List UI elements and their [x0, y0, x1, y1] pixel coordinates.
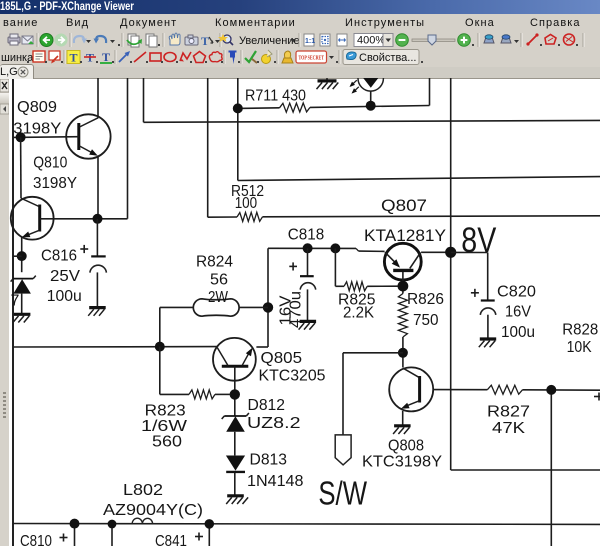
svg-text:1:1: 1:1 — [305, 38, 315, 45]
svg-text:R824: R824 — [196, 254, 233, 271]
svg-text:1N4148: 1N4148 — [247, 473, 304, 490]
svg-text:S/W: S/W — [318, 475, 367, 512]
svg-text:100: 100 — [235, 195, 258, 212]
svg-text:T: T — [102, 50, 110, 64]
svg-text:D813: D813 — [250, 452, 288, 469]
svg-text:400%: 400% — [357, 35, 385, 47]
svg-text:C841: C841 — [155, 533, 187, 546]
svg-text:KTC3205: KTC3205 — [259, 368, 326, 385]
svg-text:470u: 470u — [288, 291, 305, 328]
svg-text:Q810: Q810 — [33, 155, 67, 172]
svg-text:Свойства...: Свойства... — [359, 52, 416, 64]
svg-text:2W: 2W — [208, 289, 229, 306]
svg-text:Q805: Q805 — [261, 350, 303, 367]
svg-text:Q809: Q809 — [17, 99, 57, 116]
svg-text:T: T — [70, 51, 78, 65]
svg-text:R826: R826 — [407, 291, 444, 308]
svg-text:C816: C816 — [41, 248, 77, 265]
svg-text:56: 56 — [210, 272, 228, 289]
svg-text:Увеличение: Увеличение — [239, 35, 300, 47]
svg-text:3198Y: 3198Y — [13, 121, 61, 138]
svg-text:25V: 25V — [50, 268, 80, 285]
svg-text:8V: 8V — [461, 221, 497, 260]
svg-text:3198Y: 3198Y — [33, 175, 77, 192]
svg-text:100u: 100u — [501, 324, 535, 341]
svg-text:C810: C810 — [20, 533, 52, 546]
svg-text:шинка: шинка — [1, 52, 34, 64]
svg-text:47K: 47K — [492, 420, 525, 437]
svg-text:10K: 10K — [567, 339, 592, 356]
svg-text:750: 750 — [413, 312, 439, 329]
svg-text:R711 430: R711 430 — [245, 88, 306, 105]
svg-text:KTC3198Y: KTC3198Y — [362, 454, 442, 471]
svg-text:16V: 16V — [505, 304, 531, 321]
svg-text:AZ9004Y(C): AZ9004Y(C) — [103, 502, 203, 519]
svg-text:TOP SECRET: TOP SECRET — [299, 55, 325, 62]
svg-text:560: 560 — [152, 434, 182, 451]
svg-text:T: T — [201, 34, 209, 48]
svg-text:R827: R827 — [487, 404, 530, 421]
svg-text:Q807: Q807 — [381, 196, 427, 215]
svg-text:100u: 100u — [47, 288, 82, 305]
svg-text:1/6W: 1/6W — [141, 418, 188, 435]
svg-text:C820: C820 — [497, 284, 536, 301]
svg-text:2.2K: 2.2K — [343, 305, 374, 322]
svg-text:L802: L802 — [123, 482, 163, 499]
svg-text:R823: R823 — [145, 403, 186, 420]
svg-text:Q808: Q808 — [388, 438, 424, 455]
svg-text:C818: C818 — [288, 227, 325, 244]
svg-text:KTA1281Y: KTA1281Y — [364, 226, 446, 245]
svg-text:D812: D812 — [248, 397, 286, 414]
svg-text:R828: R828 — [562, 322, 598, 339]
svg-text:7: 7 — [11, 293, 20, 310]
svg-text:UZ8.2: UZ8.2 — [247, 415, 301, 432]
